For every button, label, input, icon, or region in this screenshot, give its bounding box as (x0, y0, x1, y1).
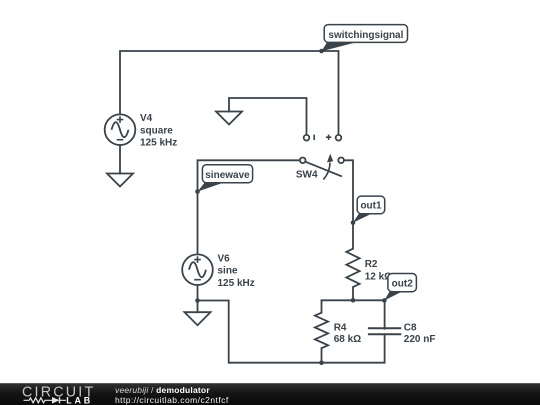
svg-text:V4: V4 (140, 113, 153, 124)
svg-text:SW4: SW4 (296, 170, 318, 181)
resistor R4 (315, 313, 328, 349)
footer bar (0, 383, 540, 405)
node dot out2 anchor (382, 298, 387, 303)
wire junction to bottom rail (198, 301, 385, 363)
resistor R2 (346, 249, 359, 287)
voltage source V6 (182, 254, 213, 285)
label R2 values (365, 259, 392, 282)
wire junction to ground (197, 301, 199, 313)
svg-text:125 kHz: 125 kHz (218, 278, 255, 289)
wire switch right to R2 top (344, 160, 353, 248)
flag label out1 (353, 196, 385, 223)
svg-text:C8: C8 (404, 322, 417, 333)
node dot R2 bottom junction (351, 298, 356, 303)
svg-text:switchingsignal: switchingsignal (328, 30, 403, 41)
wire R4 bottom lead (321, 348, 323, 363)
ground GND2 at switch control (216, 112, 242, 125)
ground GND3 under V6 (185, 312, 211, 325)
label C8 values (404, 322, 436, 345)
capacitor C8 (368, 328, 401, 334)
flag label out2 (384, 274, 416, 301)
wire R2 bottom lead (352, 287, 354, 300)
node dot out1 anchor (351, 220, 356, 225)
node dot R4 bottom junction (319, 360, 324, 365)
svg-text:out1: out1 (360, 201, 382, 212)
svg-text:sinewave: sinewave (205, 170, 250, 181)
wire V4 top to switch control (120, 51, 339, 135)
footer logo resistor-diode glyph (24, 397, 67, 403)
wire ground stem to I terminal (229, 98, 307, 135)
svg-text:square: square (140, 125, 173, 136)
svg-text:125 kHz: 125 kHz (140, 138, 177, 149)
switch SW4 arrowhead (327, 154, 333, 163)
ground GND1 under V4 (107, 174, 133, 187)
svg-text:out2: out2 (392, 278, 414, 289)
svg-text:sine: sine (218, 266, 238, 277)
svg-text:R2: R2 (365, 259, 378, 270)
svg-text:R4: R4 (334, 322, 347, 333)
wire top rail R4 to C8 (322, 300, 385, 328)
node dot V6 junction (195, 298, 200, 303)
label V6 values (218, 253, 255, 289)
switch SW4 (300, 135, 344, 180)
svg-text:veerubiji / demodulator: veerubiji / demodulator (115, 385, 210, 395)
wire V4 bottom to ground (119, 145, 121, 174)
label R4 values (334, 322, 361, 345)
svg-text:http://circuitlab.com/c2ntfcf: http://circuitlab.com/c2ntfcf (115, 395, 229, 405)
wire switch left to V6 top (198, 160, 300, 254)
wire V6 bottom to junction (197, 285, 199, 301)
voltage source V4 (105, 114, 136, 145)
flag label switchingsignal (322, 25, 408, 52)
node dot sinewave anchor (195, 189, 200, 194)
svg-text:220 nF: 220 nF (404, 334, 436, 345)
label V4 values (140, 113, 177, 149)
svg-text:68 kΩ: 68 kΩ (334, 334, 361, 345)
node dot switchingsignal anchor (319, 49, 324, 54)
svg-text:LAB: LAB (66, 395, 93, 405)
flag label sinewave (198, 165, 253, 192)
svg-text:V6: V6 (218, 253, 231, 264)
